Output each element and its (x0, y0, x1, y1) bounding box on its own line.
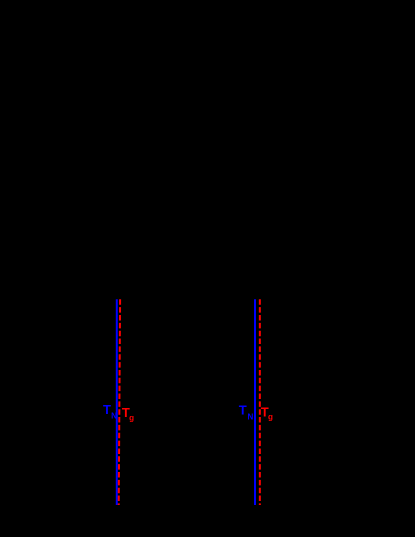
svg-text:g: g (268, 412, 273, 421)
left profile dashed red T_g line (119, 299, 120, 505)
left profile solid blue T_N line (116, 299, 118, 505)
svg-text:T: T (239, 403, 247, 418)
right label T_N blue (239, 403, 254, 422)
left label T_g red (122, 405, 134, 422)
right label T_g red (261, 405, 273, 422)
svg-text:g: g (129, 413, 134, 422)
left label T_N blue (103, 402, 117, 420)
right profile dashed red T_g line (259, 299, 261, 505)
svg-text:T: T (103, 402, 111, 417)
svg-text:N: N (111, 411, 117, 420)
right profile solid blue T_N line (254, 299, 256, 505)
svg-text:N: N (248, 412, 254, 421)
